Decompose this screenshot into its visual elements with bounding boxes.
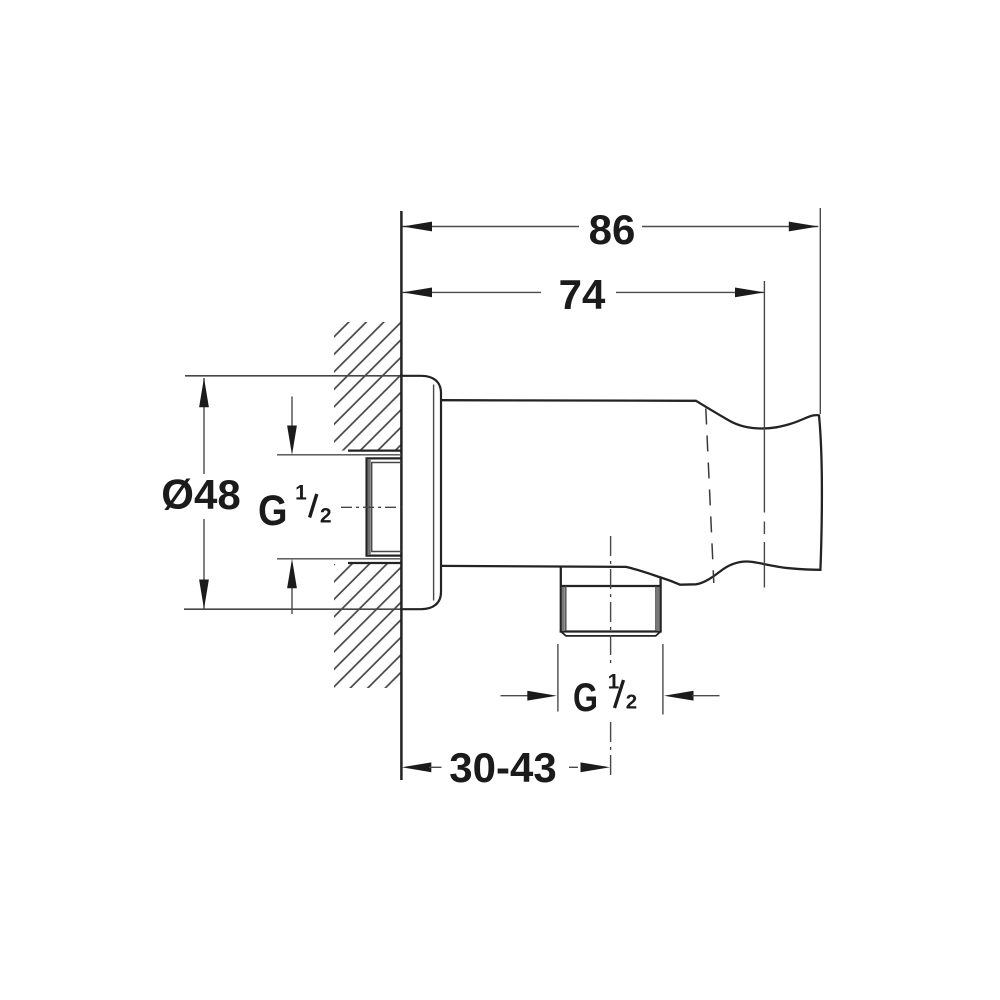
svg-text:G: G bbox=[573, 676, 598, 720]
dimension 86: right arrowhead bbox=[789, 222, 819, 232]
dimension G1/2 bottom: left arrow bbox=[501, 695, 530, 697]
extension line upper (G1/2 wall dim) bbox=[277, 454, 401, 456]
dimension G1/2 wall: text bbox=[258, 482, 332, 536]
flange outline bbox=[400, 376, 441, 609]
dimension O48: top arrowhead bbox=[199, 378, 209, 408]
dimension G1/2 bottom: text bbox=[573, 671, 637, 721]
svg-text:2: 2 bbox=[626, 691, 637, 714]
outlet nipple right edge shading bbox=[657, 587, 660, 631]
dimension 74: right arrowhead bbox=[735, 288, 765, 298]
svg-text:1: 1 bbox=[295, 482, 307, 505]
outlet nipple hex top line bbox=[561, 585, 661, 587]
dim extension line top (flange) bbox=[185, 375, 401, 377]
outlet nipple left edge bbox=[560, 568, 562, 633]
dimension 86: dim line bbox=[403, 226, 580, 228]
svg-text:86: 86 bbox=[589, 206, 636, 253]
dimension 86: left arrowhead bbox=[403, 222, 433, 232]
dimension 30-43: left arrow bbox=[402, 762, 432, 772]
in-wall thread inner bbox=[372, 463, 402, 552]
dimension 74: dim line bbox=[403, 291, 542, 293]
dim extension line bottom (flange) bbox=[184, 608, 401, 610]
wall hatching upper band bbox=[334, 322, 402, 451]
body and holder silhouette bbox=[441, 400, 822, 585]
dashed tangent line on holder bbox=[706, 409, 714, 584]
dimension 30-43: right arrow bbox=[569, 766, 578, 768]
dimension 74: left arrowhead bbox=[403, 288, 433, 298]
flange face edge line bbox=[433, 385, 435, 601]
svg-text:30-43: 30-43 bbox=[449, 744, 556, 791]
svg-text:2: 2 bbox=[320, 505, 332, 528]
wall face line bbox=[400, 211, 403, 780]
hole top edge in wall bbox=[348, 449, 401, 451]
holder centerline (74 right extension) bbox=[763, 281, 765, 513]
dimension 86: right extension line bbox=[819, 208, 821, 414]
outlet nipple chamfer bottom bbox=[561, 632, 661, 636]
dimension O48: bottom arrowhead bbox=[199, 580, 209, 610]
outlet nipple inner right thread line bbox=[655, 586, 657, 631]
svg-text:G: G bbox=[258, 487, 288, 535]
outlet nipple inner left thread line bbox=[565, 586, 567, 631]
dimension O48: dim line bbox=[203, 378, 205, 474]
outlet nipple centerline bbox=[610, 536, 612, 668]
in-wall thread outer bbox=[367, 458, 402, 555]
dimension G1/2 wall: lower arrow bbox=[291, 567, 293, 614]
dimension G1/2 bottom: extension lines bbox=[557, 644, 559, 712]
dimension G1/2 bottom: right arrow bbox=[664, 691, 694, 701]
svg-text:1: 1 bbox=[608, 671, 620, 694]
dimension G1/2 wall: upper arrow bbox=[291, 397, 293, 449]
dimension G1/2 wall: leader dash-dot bbox=[341, 506, 401, 508]
outlet nipple left edge shading bbox=[562, 587, 565, 631]
wall hatching lower band bbox=[334, 564, 402, 688]
outlet nipple right edge bbox=[659, 577, 661, 633]
outlet nipple bottom edge bbox=[560, 630, 662, 632]
extension line lower (G1/2 wall dim) bbox=[277, 558, 401, 560]
in-wall thread edge shading bbox=[368, 459, 371, 555]
svg-text:Ø48: Ø48 bbox=[161, 471, 240, 518]
hole bottom edge in wall bbox=[348, 562, 401, 564]
svg-text:74: 74 bbox=[559, 271, 606, 318]
